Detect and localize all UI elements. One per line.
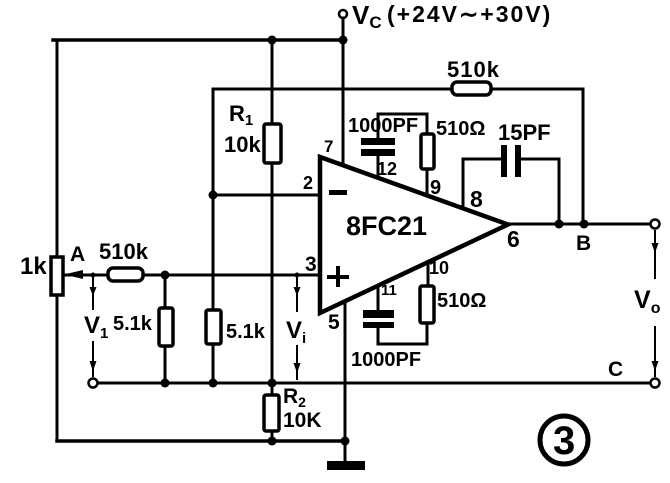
resistor R1 body (264, 124, 281, 163)
svg-text:5: 5 (328, 311, 340, 334)
wire R1 branch vertical (271, 40, 274, 383)
svg-text:7: 7 (324, 137, 333, 156)
junction dot pin3 5.1k (161, 271, 170, 280)
wire 5.1k left vertical (164, 275, 167, 383)
junction dot rail R2 (268, 379, 277, 388)
wire left vertical (56, 40, 59, 441)
svg-text:8: 8 (470, 186, 483, 212)
svg-text:10: 10 (429, 258, 449, 278)
wire pin 10 lead (427, 262, 430, 286)
potentiometer wiper arrow (64, 270, 83, 279)
wire pin 12 lead (377, 156, 380, 180)
svg-text:510k: 510k (99, 239, 149, 264)
svg-text:A: A (70, 243, 85, 266)
node output terminal (651, 220, 660, 229)
resistor 510k input body (108, 268, 143, 281)
junction dot rail 5.1k left (161, 379, 170, 388)
resistor 510k feedback body (452, 82, 491, 95)
resistor 510ohm bottom body (420, 286, 434, 323)
junction dot Vi tap (295, 273, 300, 278)
wire C rail (97, 382, 651, 385)
Vi measure arrow (294, 277, 301, 380)
svg-text:510Ω: 510Ω (437, 290, 486, 312)
junction dot rail 5.1k right (209, 379, 218, 388)
capacitor 1000PF bottom plates (363, 310, 394, 328)
wire 15pf right (521, 159, 559, 224)
capacitor 1000PF top plates (361, 138, 395, 156)
wire pin 7 supply (342, 40, 345, 166)
capacitor 15PF plates (501, 145, 521, 177)
resistor R2 body (264, 395, 279, 431)
node Vc terminal (339, 10, 347, 18)
junction dot ground R2 (268, 437, 277, 446)
node C rail left terminal (89, 379, 98, 388)
ground (327, 461, 365, 470)
Vo measure arrow (652, 230, 659, 377)
op-amp minus sign (329, 190, 347, 195)
svg-text:3: 3 (553, 419, 575, 463)
wire pin 8 lead (462, 159, 465, 209)
svg-text:510Ω: 510Ω (436, 118, 485, 140)
svg-text:5.1k: 5.1k (226, 321, 266, 343)
wire R2 vertical (271, 383, 274, 441)
op-amp plus sign (327, 266, 349, 287)
junction dot pin2 branch (209, 191, 218, 200)
wire bottom rc connector (378, 323, 427, 344)
junction dot output feedback (580, 220, 589, 229)
wire feedback right vertical (582, 89, 585, 224)
svg-text:(+24V∼+30V): (+24V∼+30V) (387, 1, 552, 27)
op-amp U1 8FC21 (320, 157, 508, 313)
junction dot top rail R1 (268, 36, 277, 45)
wire top supply rail (53, 38, 343, 42)
svg-text:9: 9 (430, 177, 441, 199)
svg-text:1k: 1k (20, 253, 47, 280)
junction dot ground pin5 (341, 437, 350, 446)
wire pin 2 input (213, 194, 320, 197)
resistor 5.1k right body (206, 310, 221, 344)
junction dot output 15pf (555, 220, 564, 229)
wire Vc stub (342, 18, 345, 40)
svg-text:15PF: 15PF (498, 120, 551, 145)
wire pin 11 lead (377, 286, 380, 310)
resistor 5.1k left body (159, 308, 173, 346)
svg-text:B: B (576, 232, 591, 255)
wire feedback top horizontal (213, 88, 583, 91)
svg-text:1000PF: 1000PF (351, 349, 421, 371)
svg-text:C: C (608, 358, 623, 381)
wire top cap to 510 connector (378, 114, 427, 138)
wire bottom ground rail (57, 439, 345, 443)
svg-text:510k: 510k (447, 57, 500, 82)
svg-text:3: 3 (305, 253, 317, 276)
V1 measure arrow (90, 277, 97, 377)
resistor 510ohm top body (421, 134, 434, 169)
wire pin 9 lead (426, 169, 429, 196)
potentiometer 1k body (51, 257, 63, 295)
node C rail right terminal (651, 379, 660, 388)
svg-text:1000PF: 1000PF (348, 115, 418, 137)
svg-text:12: 12 (377, 159, 397, 179)
figure number circled 3 (540, 416, 588, 464)
svg-text:10k: 10k (224, 132, 261, 157)
svg-text:11: 11 (381, 282, 397, 299)
wire inverting branch vertical (212, 89, 215, 383)
svg-text:2: 2 (303, 173, 313, 193)
wire pin 3 input (64, 274, 320, 277)
wire output (508, 223, 651, 226)
svg-text:8FC21: 8FC21 (346, 211, 427, 241)
wire 15pf branch (463, 158, 501, 161)
wire pin 5 ground (344, 301, 347, 462)
junction dot V1 tap (91, 273, 96, 278)
svg-text:5.1k: 5.1k (113, 313, 153, 335)
svg-text:10K: 10K (283, 409, 322, 432)
junction dot top rail Vc (339, 36, 348, 45)
svg-text:6: 6 (507, 226, 520, 252)
